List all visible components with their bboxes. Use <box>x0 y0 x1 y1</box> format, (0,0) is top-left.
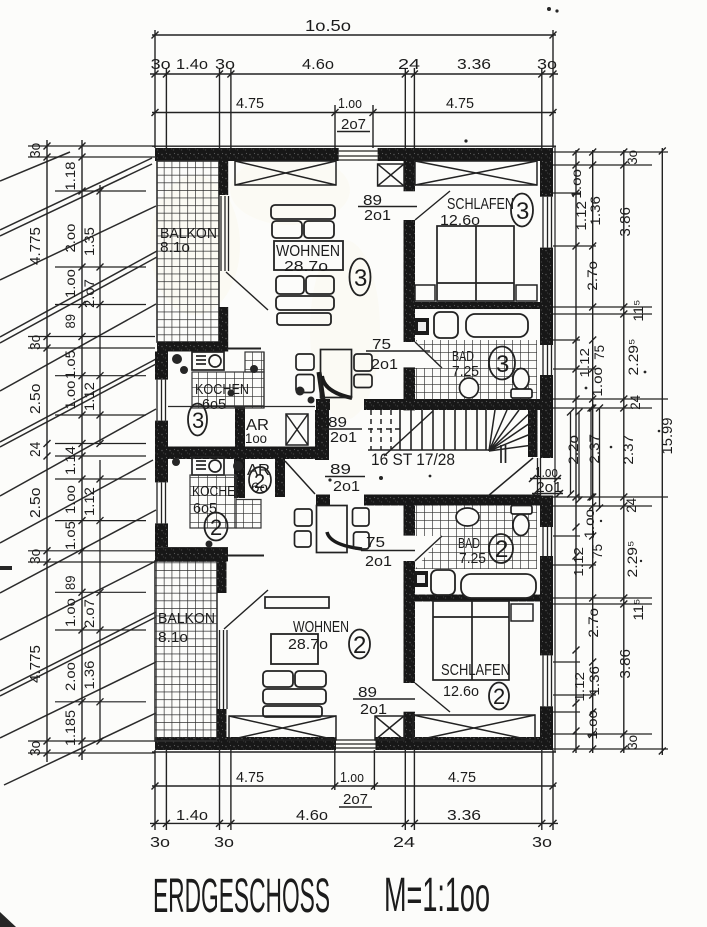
svg-text:4.6o: 4.6o <box>302 56 334 73</box>
svg-text:2o1: 2o1 <box>333 478 360 495</box>
shower square bad3 <box>415 318 429 335</box>
counter grid kochen3 <box>192 372 264 408</box>
svg-text:3.86: 3.86 <box>617 649 634 679</box>
svg-text:1.12: 1.12 <box>572 672 587 702</box>
right chain V1 <box>573 149 580 754</box>
terrain diagonal 13 <box>4 713 156 785</box>
svg-text:2.7o: 2.7o <box>585 608 601 638</box>
window: schlafen-2 right <box>543 655 552 706</box>
svg-text:3o: 3o <box>150 834 170 851</box>
window: kochen-2 left <box>157 482 166 523</box>
balcony 3 bottom band <box>157 342 228 352</box>
svg-text:1.185: 1.185 <box>62 710 78 746</box>
svg-text:1.oo: 1.oo <box>62 380 78 409</box>
terrain diagonal 11 (double) <box>0 612 156 691</box>
table wohnen2 <box>271 634 318 664</box>
window: schlafen-3 right <box>543 197 552 248</box>
sofa wohnen2 <box>263 671 326 717</box>
nightstand right schlafen3 <box>516 285 537 301</box>
scan tint patches <box>150 155 380 420</box>
svg-text:2o1: 2o1 <box>364 207 391 224</box>
svg-text:1.12: 1.12 <box>81 382 97 411</box>
stove kochen3 <box>192 352 224 370</box>
apartment circle 2 kochen <box>205 513 228 541</box>
wall: AR3 left <box>235 406 245 447</box>
svg-text:28.7o: 28.7o <box>284 258 328 275</box>
stair winder treads <box>489 410 533 451</box>
wall: left exterior upper segment <box>155 352 168 380</box>
svg-text:3.36: 3.36 <box>447 807 481 824</box>
left extension lines <box>28 146 155 753</box>
svg-text:1.oo: 1.oo <box>581 509 597 539</box>
terrain diagonal 3 <box>0 206 156 280</box>
right chain V2 <box>589 149 596 754</box>
wall: wohnen3/schlafen3 divider lower <box>404 220 416 302</box>
wall: apt2/stairhall right part <box>364 495 540 506</box>
svg-text:2.37: 2.37 <box>620 435 636 465</box>
balcony 2 door swing <box>224 590 268 629</box>
wall: apt2/stairhall left part <box>316 495 330 506</box>
nightstand left schlafen3 <box>415 285 435 301</box>
window: bad-2 right <box>543 527 552 556</box>
bathtub bad3 <box>466 314 528 337</box>
stair treads dashed <box>368 410 402 450</box>
hall dots <box>379 476 383 480</box>
svg-text:1.4o: 1.4o <box>176 807 208 824</box>
stair treads solid <box>400 410 486 450</box>
terrain diagonal 1 <box>0 152 70 181</box>
svg-text:24: 24 <box>398 56 420 73</box>
svg-text:ERDGESCHOSS: ERDGESCHOSS <box>153 870 330 923</box>
left edge mark <box>0 566 12 570</box>
handrail mark <box>500 445 502 463</box>
svg-text:6o: 6o <box>251 479 268 495</box>
svg-text:1oo: 1oo <box>245 430 267 446</box>
left chain L1 <box>44 140 51 762</box>
svg-text:4.6o: 4.6o <box>296 807 328 824</box>
window: bad-3 right <box>543 345 552 375</box>
sideboard wohnen2 <box>265 597 329 608</box>
svg-text:2o1: 2o1 <box>330 429 357 446</box>
wash basin bad3 <box>460 378 479 398</box>
svg-text:8.1o: 8.1o <box>160 239 190 256</box>
svg-text:89: 89 <box>62 314 78 329</box>
terrain diagonal 12 <box>0 662 156 738</box>
svg-text:1.4o: 1.4o <box>176 56 208 73</box>
wall: apt3/stairhall left part <box>316 399 330 410</box>
wall: right exterior segments <box>540 148 553 197</box>
svg-text:2.o7: 2.o7 <box>81 279 97 308</box>
svg-text:28.7o: 28.7o <box>288 636 328 653</box>
svg-text:3o: 3o <box>27 143 44 158</box>
svg-text:2o7: 2o7 <box>343 791 368 808</box>
wall: wohnen2/schlafen2 divider upper <box>404 601 416 683</box>
svg-text:3o: 3o <box>27 549 44 564</box>
balcony 2 (bottom left) tile grid <box>155 561 217 741</box>
svg-text:24: 24 <box>27 442 44 457</box>
svg-text:4.775: 4.775 <box>27 645 44 683</box>
wall: bottom exterior right segment <box>376 737 554 750</box>
wall: bottom exterior left segment <box>155 737 336 750</box>
apartment circle 2 wohnen <box>349 630 370 659</box>
left chain L3 <box>97 185 104 745</box>
svg-text:1.36: 1.36 <box>586 666 602 696</box>
svg-text:2o7: 2o7 <box>341 116 366 133</box>
terrain diagonal 2 (double) <box>0 158 152 230</box>
smudges kitchen2 <box>172 458 180 466</box>
thin line: kochen3 top edge <box>228 348 261 350</box>
window box crossed schlafen3 <box>415 161 537 185</box>
wash basin bad2 <box>456 508 479 526</box>
top wall outline <box>152 145 556 147</box>
svg-text:1.oo: 1.oo <box>62 485 78 514</box>
svg-text:8.1o: 8.1o <box>158 629 188 646</box>
terrain diagonal 4 (double) <box>0 251 157 337</box>
wall: AR3/AR2 divider <box>168 447 329 460</box>
wall: top exterior left segment <box>155 148 339 161</box>
balcony 2 door window lines <box>220 630 228 709</box>
apartment circle 2 AR <box>249 467 271 493</box>
svg-text:2: 2 <box>495 536 508 563</box>
svg-text:KOCHEN: KOCHEN <box>192 483 244 500</box>
wall: top exterior right segment <box>378 148 553 161</box>
sofa top wohnen3 <box>271 205 335 238</box>
terrain diagonal 7 <box>0 409 156 496</box>
svg-text:3o: 3o <box>27 741 44 756</box>
tile floor bad2 <box>415 505 537 569</box>
thin line: AR3 top edge <box>168 406 315 408</box>
balcony 3 right wall lower piece <box>219 307 229 342</box>
sink square bad2 <box>431 570 455 595</box>
svg-text:SCHLAFEN: SCHLAFEN <box>441 662 510 679</box>
svg-text:12.6o: 12.6o <box>443 683 479 700</box>
dimension chain top row1 total 1o.5o <box>152 30 557 148</box>
scattered dots right margin <box>585 387 588 390</box>
right extension lines <box>553 152 668 749</box>
svg-text:89: 89 <box>62 575 78 590</box>
svg-text:2.5o: 2.5o <box>27 488 44 518</box>
svg-text:2: 2 <box>353 632 366 659</box>
wall: kochen2 right <box>234 457 245 498</box>
svg-text:7.25: 7.25 <box>452 363 479 380</box>
terrain diagonal 6 (double) <box>0 359 156 442</box>
svg-text:1.18: 1.18 <box>62 161 78 190</box>
svg-text:1.12: 1.12 <box>81 487 97 516</box>
door swing bad2 <box>415 536 442 561</box>
stair bottom edge <box>368 449 489 451</box>
balcony 3 (top left) tile grid <box>157 161 219 342</box>
svg-text:24: 24 <box>623 498 639 513</box>
balcony 2 top band <box>155 547 228 561</box>
svg-text:3o: 3o <box>624 150 640 165</box>
bottom wall outline <box>152 751 556 753</box>
svg-text:1.o5: 1.o5 <box>62 521 78 550</box>
balcony 3 right wall upper piece <box>219 160 229 195</box>
svg-text:1.oo: 1.oo <box>589 367 605 397</box>
thin line: kochen3 right edge <box>263 352 265 408</box>
window: bottom centre 1.oo <box>336 740 376 748</box>
svg-text:M=1:1oo: M=1:1oo <box>384 869 490 922</box>
svg-text:1.oo: 1.oo <box>568 169 584 199</box>
svg-text:1.12: 1.12 <box>571 547 586 577</box>
svg-text:2o1: 2o1 <box>365 553 392 570</box>
window box crossed small top <box>378 164 404 186</box>
svg-text:3o: 3o <box>214 834 234 851</box>
door swing schlafen2 <box>415 683 450 712</box>
apartment circle 3 bad <box>489 347 515 380</box>
balcony 2 right wall upper piece <box>217 561 227 593</box>
right chain V4 total 15.99 <box>659 148 666 756</box>
apartment circle 2 bad <box>489 534 513 563</box>
svg-text:4.75: 4.75 <box>236 769 264 786</box>
svg-text:3: 3 <box>496 351 509 378</box>
svg-text:BALKON: BALKON <box>158 610 215 627</box>
terrain diagonal 9 <box>0 510 156 593</box>
bottom left corner mark <box>0 912 16 927</box>
svg-text:3o: 3o <box>532 834 552 851</box>
tile floor bad3 <box>415 340 537 400</box>
svg-text:11⁵: 11⁵ <box>630 300 646 322</box>
wall: bad-2 left lower <box>404 561 416 601</box>
wall: AR2 right <box>275 459 285 497</box>
wall: stairwell right <box>528 408 538 457</box>
bed schlafen3 <box>437 226 514 301</box>
svg-text:2o1: 2o1 <box>371 356 398 373</box>
svg-text:2.5o: 2.5o <box>27 384 44 414</box>
wall: bad-3 left lower <box>404 367 416 410</box>
balcony 3 door window lines <box>221 196 229 271</box>
svg-text:3o: 3o <box>537 56 557 73</box>
wall: bad-2 left upper <box>404 495 416 536</box>
svg-text:75: 75 <box>591 345 607 360</box>
svg-text:3o: 3o <box>27 335 44 350</box>
apartment circle 3 schlafen <box>511 194 533 227</box>
svg-text:24: 24 <box>393 834 415 851</box>
svg-text:1o.5o: 1o.5o <box>305 18 351 35</box>
svg-text:3.36: 3.36 <box>457 56 491 73</box>
left chain L2 <box>79 140 86 760</box>
svg-text:2o1: 2o1 <box>360 701 387 718</box>
svg-text:2.o7: 2.o7 <box>81 599 97 628</box>
sink square bad3 <box>434 312 458 338</box>
svg-text:2.oo: 2.oo <box>62 662 78 691</box>
window box crossed wohnen3 <box>235 161 336 185</box>
counter grid kochen2 <box>190 475 236 528</box>
svg-text:15.99: 15.99 <box>659 418 676 455</box>
bathtub bad2 <box>461 574 536 598</box>
window box crossed wohnen2 <box>229 716 336 740</box>
AR2 door swing <box>285 461 315 494</box>
svg-text:3o: 3o <box>151 56 171 73</box>
door swing schlafen3 <box>415 191 450 220</box>
terrain diagonal 8 <box>0 460 153 543</box>
dimension chain top row2 <box>150 68 558 148</box>
wall: apt3/stairhall right part <box>364 399 540 410</box>
wall: wohnen2/schlafen2 divider lower <box>404 712 416 741</box>
svg-text:3o: 3o <box>215 56 235 73</box>
wall: left exterior lower segment <box>155 523 168 547</box>
svg-text:2: 2 <box>493 684 505 709</box>
apt3 entry door swing smudge <box>322 376 352 398</box>
shower square bad2 <box>414 571 428 587</box>
svg-text:3o: 3o <box>624 735 640 750</box>
toilet bad2 <box>511 506 532 515</box>
svg-text:1.35: 1.35 <box>81 227 97 256</box>
nightstand right schlafen2 <box>511 604 533 621</box>
svg-text:4.775: 4.775 <box>27 227 44 265</box>
wall: schlafen3/bad3 divider <box>415 302 540 309</box>
bed schlafen2 <box>433 601 509 680</box>
AR3 door leaf crossed <box>286 414 308 445</box>
svg-text:75: 75 <box>366 534 385 551</box>
entry door swing <box>488 458 533 496</box>
door wedge bad3 <box>415 340 442 368</box>
svg-text:89: 89 <box>330 461 351 478</box>
apt2 entry door swing smudge <box>327 532 362 549</box>
door wedge bad2 <box>415 536 442 569</box>
svg-text:3: 3 <box>192 408 204 433</box>
dimension chain bottom row1 <box>152 750 557 790</box>
toilet bad3 <box>513 369 529 390</box>
svg-text:1.oo: 1.oo <box>338 95 362 112</box>
svg-text:1.oo: 1.oo <box>62 598 78 627</box>
dimension chain bottom row2 <box>150 750 558 830</box>
svg-text:SCHLAFEN: SCHLAFEN <box>447 196 514 213</box>
terrain diagonal 5 <box>0 304 156 391</box>
wall: left exterior mid segment <box>155 421 168 483</box>
wall: schlafen2/bad2 divider <box>415 595 540 602</box>
stair up direction line <box>384 411 433 456</box>
balcony 2 right wall lower piece <box>217 709 227 741</box>
right wall outline <box>554 146 556 752</box>
entry underline ticks <box>529 475 563 497</box>
dimension chain top row3 <box>152 105 557 148</box>
entry door leaf <box>537 458 539 496</box>
svg-text:7.25: 7.25 <box>459 550 486 567</box>
window: kochen-3 left <box>157 380 166 421</box>
svg-text:2.29⁵: 2.29⁵ <box>624 541 640 578</box>
thin line: kochen2 bottom edge <box>228 555 264 557</box>
wall: wohnen3/schlafen3 divider upper <box>404 161 416 191</box>
stair width dim lines right <box>567 405 603 512</box>
scan dots top right <box>547 7 551 11</box>
svg-text:1.36: 1.36 <box>81 660 97 689</box>
svg-text:16 ST 17/28: 16 ST 17/28 <box>371 450 455 469</box>
wall: AR3 right / stairhall <box>315 410 329 460</box>
apartment circle 2 schlafen <box>489 683 509 710</box>
door swing bad3 <box>415 342 442 368</box>
svg-text:2.oo: 2.oo <box>62 223 78 252</box>
svg-text:75: 75 <box>589 544 605 559</box>
svg-text:3: 3 <box>354 265 367 292</box>
stove kochen2 <box>192 457 224 475</box>
svg-text:1.oo: 1.oo <box>584 710 600 740</box>
window box crossed small bottom <box>375 716 404 740</box>
sofa bottom wohnen3 <box>276 276 334 325</box>
svg-text:1.o5: 1.o5 <box>62 350 78 379</box>
svg-text:1.14: 1.14 <box>62 446 78 475</box>
apartment circle 3 wohnen <box>350 259 371 296</box>
svg-text:2.7o: 2.7o <box>584 261 600 291</box>
apartment circle 3 kochen <box>188 404 207 436</box>
svg-text:4.75: 4.75 <box>448 769 476 786</box>
svg-text:11⁵: 11⁵ <box>630 599 646 621</box>
svg-text:2: 2 <box>210 515 222 540</box>
window: top centre 1.oo <box>339 151 378 160</box>
svg-text:2.29⁵: 2.29⁵ <box>625 339 641 376</box>
window box crossed schlafen2 <box>413 715 535 741</box>
svg-text:1.oo: 1.oo <box>340 769 364 786</box>
svg-text:4.75: 4.75 <box>446 95 474 112</box>
svg-text:1.36: 1.36 <box>587 196 603 226</box>
svg-text:3: 3 <box>516 198 529 225</box>
svg-text:24: 24 <box>627 395 643 410</box>
svg-text:3.86: 3.86 <box>617 207 634 237</box>
right chain V3 <box>620 149 627 754</box>
wall: bad-3 left upper <box>404 302 416 342</box>
terrain diagonal 10 <box>0 561 156 640</box>
table wohnen3 <box>274 241 343 270</box>
smudges kitchen3 <box>172 354 182 364</box>
balcony 3 door swing <box>226 272 268 310</box>
svg-text:1.oo: 1.oo <box>62 269 78 298</box>
svg-text:4.75: 4.75 <box>236 95 264 112</box>
